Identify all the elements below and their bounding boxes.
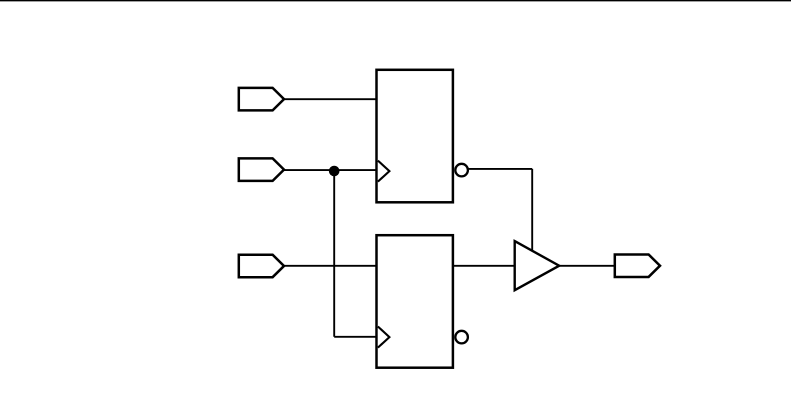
flip-flop U2 QN bubble (455, 331, 468, 344)
input port 1 (239, 88, 284, 111)
wire D input to U1 (284, 98, 377, 100)
input port 2 (239, 158, 284, 181)
flip-flop U1 body (377, 70, 453, 203)
flip-flop U1 QN bubble (455, 164, 468, 177)
output port (615, 254, 660, 277)
wire U2 Q to U3 input (453, 265, 515, 267)
flip-flop U2 clock pin triangle (378, 327, 390, 348)
wire U3 output to port (559, 265, 616, 267)
wire D input to U2 (284, 265, 377, 267)
wire clock net to U1 (284, 169, 377, 171)
wire clock net vertical drop (333, 170, 335, 337)
wire clock net to U2 (334, 336, 376, 338)
wire U1 QN to enable horizontal (469, 168, 533, 170)
tri-state buffer U3 (515, 241, 560, 290)
input port 3 (239, 255, 284, 278)
wire enable vertical drop to U3 (531, 169, 533, 254)
page top rule (0, 0, 791, 2)
flip-flop U2 body (377, 235, 453, 368)
flip-flop U1 clock pin triangle (378, 161, 390, 182)
junction dot on clock net (329, 166, 340, 177)
